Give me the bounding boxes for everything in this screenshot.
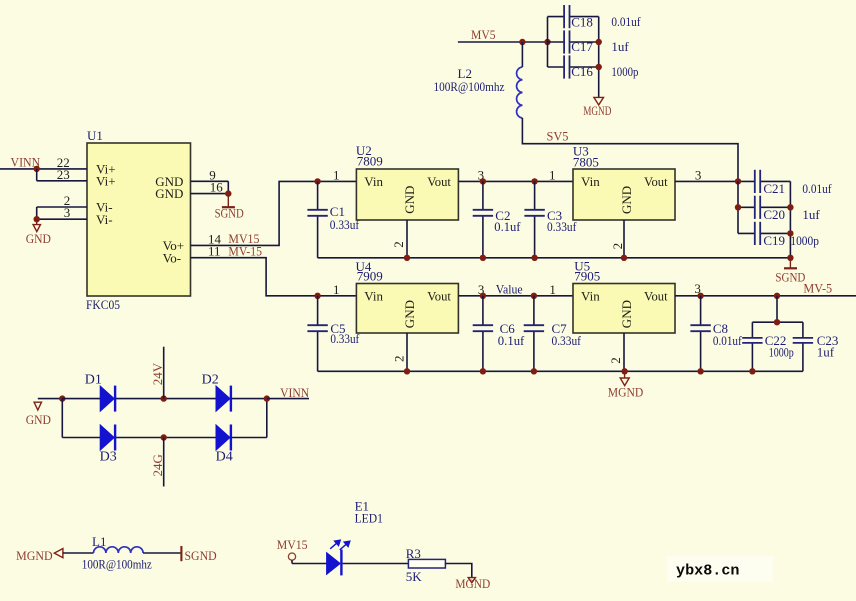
pin number 1 (U3): [549, 167, 556, 182]
capacitor C7: [524, 296, 544, 372]
pin number 1 (U4): [333, 282, 340, 297]
pin name Vo+ (14): [163, 238, 185, 253]
svg-text:Value: Value: [496, 282, 523, 297]
pin name GND (U5): [619, 300, 634, 328]
pin number 3 (U4): [478, 282, 485, 297]
svg-text:1uf: 1uf: [611, 39, 629, 54]
value 100R@100mhz (L1): [82, 557, 152, 572]
junction C19 right: [787, 230, 793, 236]
svg-text:C21: C21: [763, 181, 785, 196]
pin number 3 (U5): [694, 281, 701, 296]
value 1uf (C23): [817, 344, 835, 359]
junction GND stub: [34, 216, 40, 222]
wire bridge bottom: [62, 437, 266, 439]
pin name Vout (U3): [644, 174, 668, 189]
svg-text:2: 2: [608, 357, 623, 364]
LED E1 diode: [327, 540, 350, 575]
pin name Vi+ (23): [96, 173, 116, 188]
label L1: [92, 534, 106, 549]
svg-text:Vout: Vout: [644, 174, 668, 189]
wire U2 out to U3 in: [458, 180, 573, 182]
junction C3 top: [531, 178, 537, 184]
wire 24V stub: [163, 347, 165, 399]
label C6: [500, 321, 516, 336]
wire pin 2: [37, 206, 87, 208]
pin name Vout (U5): [644, 288, 668, 303]
junction U4 gnd: [404, 368, 410, 374]
junction bridge top-left: [59, 395, 65, 401]
svg-text:MV5: MV5: [471, 27, 496, 42]
label D1: [85, 372, 102, 387]
junction U5 gnd: [621, 368, 627, 374]
svg-text:0.33uf: 0.33uf: [547, 219, 577, 234]
junction U2 gnd: [404, 255, 410, 261]
value 100R@100mhz (L2): [434, 79, 505, 94]
svg-text:Vout: Vout: [427, 288, 451, 303]
svg-text:3: 3: [695, 167, 702, 182]
junction U3 gnd: [621, 255, 627, 261]
svg-text:0.1uf: 0.1uf: [498, 333, 525, 348]
wire U5 out (MV-5): [675, 295, 856, 297]
wire bridge right: [266, 399, 268, 438]
junction C22 bottom: [749, 368, 755, 374]
value 1000p (C16): [611, 64, 638, 79]
svg-text:SGND: SGND: [775, 269, 805, 284]
capacitor C19: [738, 222, 790, 245]
IC U2 body: [356, 169, 458, 220]
junction bridge VINN: [264, 395, 270, 401]
junction C16 right: [596, 64, 602, 70]
wire bridge top: [62, 398, 266, 400]
wire VINN joiner: [36, 169, 38, 181]
wire pin9-pin16 joiner: [227, 181, 229, 193]
pin number 3: [64, 205, 71, 220]
value 0.01uf (C8): [713, 333, 742, 348]
pin number 3 (U2): [478, 167, 485, 182]
svg-text:MGND: MGND: [608, 384, 644, 399]
label C20: [763, 207, 785, 222]
value 0.01uf (C21): [802, 181, 832, 196]
svg-text:7809: 7809: [357, 154, 383, 169]
value 7805: [573, 155, 599, 170]
label C3: [547, 208, 562, 223]
wire U4 out to U5 in: [458, 295, 573, 297]
value 0.33uf (C1): [330, 217, 360, 232]
capacitor C18: [548, 5, 599, 28]
svg-text:Vout: Vout: [427, 174, 451, 189]
diode D4: [216, 425, 231, 451]
power port SGND (U1): [215, 194, 244, 221]
pin name Vin (U3): [581, 174, 600, 189]
junction 24V: [161, 395, 167, 401]
svg-text:GND: GND: [26, 231, 51, 246]
junction C6 bottom: [480, 368, 486, 374]
wire cap-bank2 bus right: [789, 181, 791, 257]
wire U2 pin 2: [406, 220, 408, 258]
pin name Vin (U2): [364, 174, 383, 189]
inductor L1: [94, 547, 144, 553]
pin name Vout (U4): [427, 288, 451, 303]
svg-text:0.01uf: 0.01uf: [802, 181, 832, 196]
pin name GND (16): [155, 186, 183, 201]
svg-text:24V: 24V: [150, 362, 165, 385]
net label Value: [496, 282, 523, 297]
junction rail1 right: [787, 255, 793, 261]
wire SV5 net: [522, 118, 738, 181]
pin number 2 (U5): [608, 357, 623, 364]
label D4: [216, 449, 233, 464]
svg-text:Vout: Vout: [644, 288, 668, 303]
IC U5 body: [573, 284, 675, 334]
svg-text:0.01uf: 0.01uf: [611, 14, 641, 29]
junction C1 top: [314, 178, 320, 184]
capacitor C8: [690, 296, 710, 372]
junction C2 top: [480, 178, 486, 184]
pin number 3 (U3): [695, 167, 702, 182]
value 1uf (C17): [611, 39, 629, 54]
pin number 2 (U3): [610, 243, 625, 250]
svg-text:MV15: MV15: [277, 537, 308, 552]
svg-text:16: 16: [210, 180, 224, 195]
value 7905: [574, 269, 600, 284]
svg-text:GND: GND: [402, 186, 417, 214]
wire U3 out: [675, 180, 754, 182]
svg-text:GND: GND: [619, 300, 634, 328]
power port SGND (right): [775, 258, 805, 285]
svg-text:GND: GND: [26, 412, 51, 427]
wire pin 23: [37, 180, 87, 182]
svg-text:C16: C16: [571, 64, 593, 79]
ground GND (bridge): [26, 402, 51, 427]
net label MV-5: [803, 281, 832, 296]
wire rail1 bottom: [318, 257, 791, 259]
svg-text:Vin: Vin: [364, 288, 383, 303]
label D2: [202, 372, 219, 387]
pin name GND (U2): [402, 186, 417, 214]
capacitor C20: [738, 196, 790, 219]
label C18: [571, 14, 593, 29]
svg-text:Vin: Vin: [581, 288, 600, 303]
wire bridge gnd lead: [38, 398, 63, 400]
junction MV5/C17: [544, 39, 550, 45]
svg-text:VINN: VINN: [280, 385, 310, 400]
wire pin 14 (MV15): [191, 181, 357, 245]
svg-text:SGND: SGND: [185, 548, 217, 563]
pin number 22: [57, 155, 70, 170]
svg-text:GND: GND: [619, 186, 634, 214]
net label 24V: [150, 362, 165, 385]
wire pin 9: [191, 180, 229, 182]
svg-text:24G: 24G: [150, 454, 165, 476]
svg-text:1uf: 1uf: [802, 207, 820, 222]
svg-text:7909: 7909: [357, 269, 383, 284]
wire LED to R3: [343, 563, 409, 565]
wire MV5 net: [458, 41, 548, 43]
label U3: [573, 144, 589, 159]
value 7909: [357, 269, 383, 284]
junction C2 bottom: [480, 255, 486, 261]
value 7809: [357, 154, 383, 169]
junction C17 right: [596, 39, 602, 45]
label FKC05: [86, 297, 120, 312]
IC U3 body: [573, 169, 675, 220]
wire pin 3: [37, 218, 87, 220]
svg-text:100R@100mhz: 100R@100mhz: [434, 79, 505, 94]
label U1: [87, 128, 103, 143]
power port MGND (rail2): [608, 371, 644, 399]
label C1: [330, 204, 345, 219]
junction C20 left: [735, 204, 741, 210]
svg-text:C20: C20: [763, 207, 785, 222]
junction C8 top: [697, 293, 703, 299]
junction SV5/C21: [735, 178, 741, 184]
label U2: [356, 143, 372, 158]
pin number 11: [208, 244, 221, 259]
svg-text:FKC05: FKC05: [86, 297, 120, 312]
svg-text:0.1uf: 0.1uf: [494, 219, 521, 234]
net label 24G: [150, 454, 165, 476]
label C5: [330, 321, 345, 336]
capacitor C3: [524, 181, 544, 257]
svg-text:MGND: MGND: [583, 103, 611, 118]
ground GND (U1 input): [26, 219, 51, 246]
diode D1: [100, 386, 115, 412]
pin name Vin (U5): [581, 288, 600, 303]
label E1: [355, 498, 369, 513]
label D3: [100, 449, 117, 464]
wire C22/C23 top bar: [752, 321, 803, 323]
value 0.33uf (C5): [330, 331, 359, 346]
value 1000p (C22): [769, 344, 794, 359]
wire pin 11 (MV-15): [191, 258, 357, 296]
value 0.01uf (C18): [611, 14, 641, 29]
pin number 2 (U4): [391, 356, 406, 363]
value 1uf (C20): [802, 207, 820, 222]
wire pin 22 (VINN): [0, 168, 87, 170]
junction C7 bottom: [531, 368, 537, 374]
label C23: [817, 333, 839, 348]
power port MGND (top): [583, 97, 611, 117]
pin name Vi+ (22): [96, 162, 116, 177]
svg-text:C18: C18: [571, 14, 593, 29]
label C7: [552, 321, 568, 336]
power port MGND (R3): [455, 576, 490, 591]
wire cap-bank bus right: [598, 17, 600, 98]
capacitor C2: [473, 181, 493, 257]
pin number 9: [209, 167, 216, 182]
watermark background strip: [667, 556, 773, 582]
junction C5 top: [314, 293, 320, 299]
wire L1 left: [63, 552, 94, 554]
pin name Vi- (3): [96, 212, 113, 227]
junction VINN: [34, 166, 40, 172]
capacitor C1: [307, 181, 327, 257]
junction C6 top: [480, 293, 486, 299]
pin number 14: [208, 231, 222, 246]
svg-text:2: 2: [391, 241, 406, 248]
svg-text:Vi-: Vi-: [96, 212, 113, 227]
label R3: [406, 546, 421, 561]
pin number 1 (U5): [549, 282, 556, 297]
svg-text:MGND: MGND: [16, 548, 53, 563]
pin name Vout (U2): [427, 174, 451, 189]
svg-text:Vin: Vin: [581, 174, 600, 189]
watermark ybx8.cn: [676, 563, 740, 580]
svg-text:1: 1: [549, 282, 556, 297]
wire 24G stub: [163, 438, 165, 487]
svg-text:Vin: Vin: [364, 174, 383, 189]
svg-text:SGND: SGND: [215, 206, 244, 221]
pin name GND (9): [155, 174, 183, 189]
wire VINN stub: [267, 398, 309, 400]
svg-text:MGND: MGND: [455, 576, 490, 591]
label C17: [571, 39, 593, 54]
svg-text:C17: C17: [571, 39, 593, 54]
wire cap-bank bus left: [547, 17, 549, 67]
wire L1 right: [143, 552, 181, 554]
net label SV5: [547, 128, 569, 143]
junction SGND: [225, 190, 231, 196]
junction C3 bottom: [531, 255, 537, 261]
svg-text:MV-15: MV-15: [228, 244, 262, 259]
resistor R3: [408, 559, 445, 568]
svg-text:1000p: 1000p: [790, 233, 819, 248]
capacitor C23: [793, 322, 813, 371]
value 1000p (C19): [790, 233, 819, 248]
pin number 2 (U2): [391, 241, 406, 248]
svg-text:0.33uf: 0.33uf: [330, 217, 360, 232]
svg-text:1: 1: [549, 167, 556, 182]
junction C22 net top: [774, 293, 780, 299]
capacitor C21: [755, 170, 791, 193]
wire U5 pin 2: [623, 333, 625, 371]
pin name Vin (U4): [364, 288, 383, 303]
svg-text:GND: GND: [402, 300, 417, 328]
pin name Vi- (2): [96, 200, 113, 215]
svg-text:7905: 7905: [574, 269, 600, 284]
junction C8 bottom: [697, 368, 703, 374]
IC U4 body: [356, 284, 458, 334]
svg-text:Vi+: Vi+: [96, 173, 116, 188]
svg-text:0.33uf: 0.33uf: [552, 333, 582, 348]
svg-text:5K: 5K: [406, 569, 423, 584]
label U4: [356, 259, 372, 274]
net label VINN (bridge): [280, 385, 310, 400]
svg-text:7805: 7805: [573, 155, 599, 170]
svg-text:ybx8.cn: ybx8.cn: [676, 563, 740, 580]
label C8: [713, 321, 728, 336]
svg-text:23: 23: [57, 167, 70, 182]
net label MV15: [228, 231, 259, 246]
wire rail2 bottom: [318, 370, 803, 372]
svg-text:Vo-: Vo-: [163, 250, 182, 265]
svg-text:1uf: 1uf: [817, 344, 835, 359]
svg-text:D1: D1: [85, 372, 102, 387]
net label MV5: [471, 27, 496, 42]
svg-text:C19: C19: [763, 233, 785, 248]
svg-text:U1: U1: [87, 128, 103, 143]
svg-text:100R@100mhz: 100R@100mhz: [82, 557, 152, 572]
value 0.33uf (C3): [547, 219, 577, 234]
diode D3: [100, 425, 115, 451]
svg-text:L1: L1: [92, 534, 106, 549]
label LED1: [355, 511, 383, 526]
IC U1 body: [87, 143, 191, 296]
power port MGND (L1): [16, 548, 63, 563]
value 0.1uf (C6): [498, 333, 525, 348]
net label VINN (top): [11, 154, 41, 169]
capacitor C17: [548, 30, 599, 53]
capacitor C16: [548, 55, 599, 78]
inductor L2: [517, 42, 523, 118]
wire LED anode: [292, 560, 327, 563]
wire C22 drop: [776, 296, 778, 322]
svg-text:1: 1: [333, 167, 340, 182]
svg-text:1000p: 1000p: [611, 64, 638, 79]
label C22: [765, 333, 787, 348]
svg-text:11: 11: [208, 244, 221, 259]
label U5: [574, 259, 590, 274]
pin number 2: [64, 193, 71, 208]
svg-text:1000p: 1000p: [769, 344, 794, 359]
svg-text:MV-5: MV-5: [803, 281, 832, 296]
power port SGND (L1): [181, 546, 216, 563]
svg-text:GND: GND: [155, 186, 183, 201]
net label MV-15: [228, 244, 262, 259]
value 0.1uf (C2): [494, 219, 521, 234]
svg-text:1: 1: [333, 282, 340, 297]
pin name GND (U4): [402, 300, 417, 328]
junction C20 right: [787, 204, 793, 210]
value 5K (R3): [406, 569, 423, 584]
label C16: [571, 64, 593, 79]
pin name GND (U3): [619, 186, 634, 214]
wire pin 16: [191, 193, 229, 195]
capacitor C22: [742, 322, 762, 371]
pin number 16: [210, 180, 224, 195]
svg-text:R3: R3: [406, 546, 421, 561]
svg-text:SV5: SV5: [547, 128, 569, 143]
wire pin2-pin3 joiner: [36, 207, 38, 219]
svg-text:LED1: LED1: [355, 511, 383, 526]
capacitor C6: [473, 296, 493, 372]
capacitor C5: [307, 296, 327, 372]
label L2: [458, 66, 472, 81]
diode D2: [216, 386, 231, 412]
junction C7 top: [531, 293, 537, 299]
svg-text:2: 2: [610, 243, 625, 250]
wire U4 pin 2: [406, 333, 408, 371]
label C2: [495, 208, 510, 223]
svg-text:0.01uf: 0.01uf: [713, 333, 742, 348]
wire U3 pin 2: [623, 220, 625, 258]
svg-text:2: 2: [391, 356, 406, 363]
wire R3 to MGND: [445, 564, 471, 578]
value 0.33uf (C7): [552, 333, 582, 348]
svg-text:D3: D3: [100, 449, 117, 464]
wire cap-bank2 bus left: [737, 181, 739, 233]
svg-text:D4: D4: [216, 449, 233, 464]
pin name Vo- (11): [163, 250, 182, 265]
label C21: [763, 181, 785, 196]
svg-text:0.33uf: 0.33uf: [330, 331, 359, 346]
port circle MV15: [288, 553, 295, 560]
wire bridge left: [61, 399, 63, 438]
junction MV5/L2: [519, 39, 525, 45]
pin number 23: [57, 167, 70, 182]
net label MV15 (LED): [277, 537, 308, 552]
label C19: [763, 233, 785, 248]
